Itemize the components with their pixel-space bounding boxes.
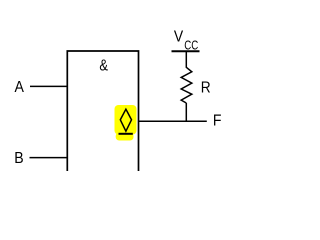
open-collector output symbol (diamond) — [120, 109, 131, 131]
resistor R (zigzag) — [181, 67, 192, 103]
wire Vcc bar to resistor top — [185, 51, 187, 68]
svg-text:&: & — [99, 58, 108, 75]
wire input B — [30, 157, 68, 159]
open-collector underline bar — [119, 133, 133, 135]
svg-text:CC: CC — [184, 37, 198, 52]
Vcc power rail bar — [172, 50, 200, 52]
svg-text:V: V — [174, 29, 184, 46]
svg-text:F: F — [213, 112, 222, 129]
wire input A — [30, 85, 67, 87]
svg-text:R: R — [201, 79, 211, 96]
wire resistor bottom to output node — [185, 103, 187, 122]
svg-text:A: A — [15, 79, 25, 96]
wire output to node F — [139, 120, 207, 122]
open-collector highlight (yellow marker) — [115, 105, 137, 141]
svg-text:B: B — [14, 150, 23, 167]
NAND gate U1 body (IEC rectangle, open at bottom) — [67, 51, 138, 171]
